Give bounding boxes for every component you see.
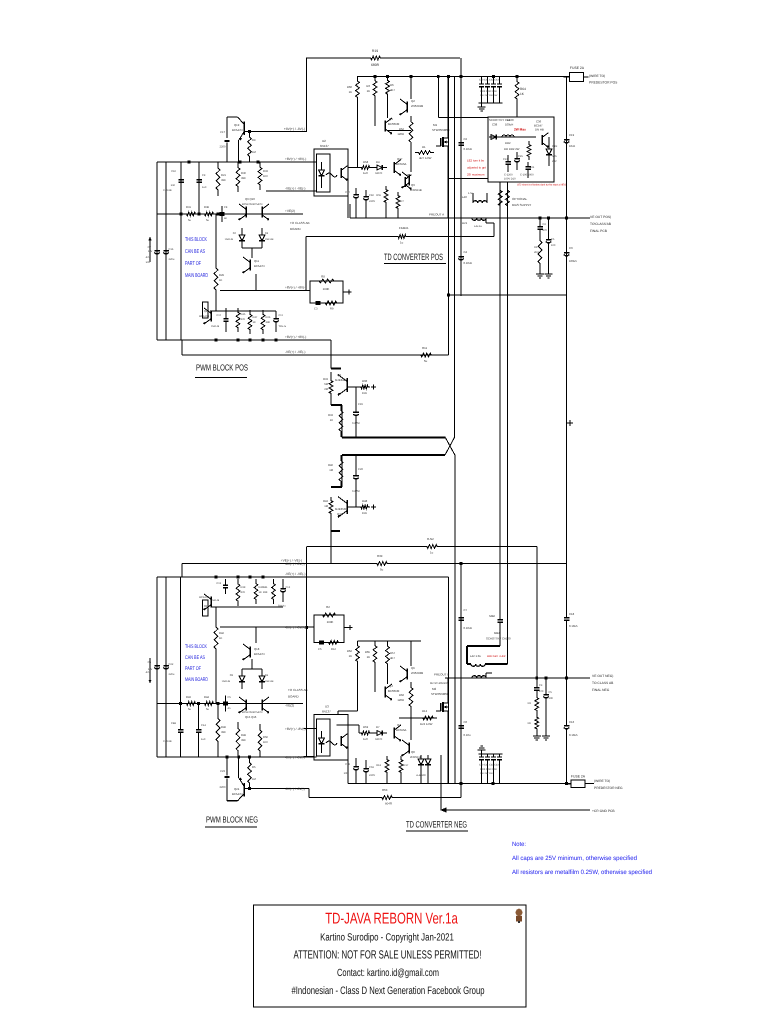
wire filba left [306, 236, 396, 238]
svg-text:C5: C5 [228, 696, 232, 699]
wire filba right [408, 223, 494, 237]
wire Q18 emitter up [255, 627, 257, 643]
svg-text:C-PENF: C-PENF [163, 189, 172, 192]
opto U2 internals [319, 162, 348, 188]
svg-text:1u: 1u [400, 241, 404, 245]
svg-text:C40 C41 C42 C43: C40 C41 C42 C43 [479, 79, 499, 82]
svg-text:6N137: 6N137 [322, 710, 331, 714]
node plus R36 [371, 384, 376, 389]
wire rail x448 lower [448, 577, 450, 784]
svg-text:28V: 28V [552, 160, 557, 163]
capacitor C19 on rail 566 [564, 128, 576, 154]
svg-text:BIAS SUPPLY: BIAS SUPPLY [512, 203, 531, 207]
svg-text:Q23: Q23 [204, 309, 210, 313]
resistor R11 mid [418, 346, 434, 363]
svg-text:680R: 680R [371, 63, 380, 67]
label U2 6N137 [320, 139, 329, 148]
svg-text:1u0: 1u0 [363, 171, 368, 175]
capacitor bank C30-C33 [479, 754, 503, 784]
svg-text:C30 C31 C32 C33: C30 C31 C32 C33 [479, 764, 499, 767]
resistor R45 pwm [236, 308, 246, 332]
svg-text:R6: R6 [390, 83, 394, 87]
wire emitter stub upper [331, 405, 342, 438]
svg-text:Q9 Q10: Q9 Q10 [245, 197, 255, 201]
svg-text:MJE350C: MJE350C [335, 507, 347, 511]
capacitor C16 rail [163, 240, 175, 264]
svg-text:SCHOTTKY CA160: SCHOTTKY CA160 [489, 118, 514, 122]
wire pwm neg mid rail [157, 702, 303, 705]
svg-text:PREOUT A: PREOUT A [429, 213, 444, 217]
svg-text:SCHOTTKY CA160: SCHOTTKY CA160 [486, 637, 511, 641]
resistor FILBA1 [396, 226, 409, 245]
transistor Q4 BC556A [394, 157, 407, 176]
inductor L1 [502, 135, 514, 137]
wire bottom POS section [447, 294, 566, 297]
svg-text:R33: R33 [323, 378, 328, 381]
icon author portrait [516, 909, 523, 924]
svg-text:5V6: 5V6 [552, 155, 557, 158]
svg-text:100V D10: 100V D10 [504, 178, 516, 181]
svg-text:-VE(2): -VE(2) [285, 704, 294, 708]
svg-text:BC556M: BC556M [388, 122, 400, 126]
resistor R55 [376, 186, 388, 206]
svg-text:C3: C3 [314, 308, 318, 311]
svg-text:C17: C17 [345, 191, 350, 194]
feedback box R10 C5 R12 [314, 605, 344, 651]
capacitor C7n rail neg [146, 655, 160, 679]
svg-text:All caps are 25V minimum, othe: All caps are 25V minimum, otherwise spec… [512, 855, 638, 862]
fuse F1 2A POS [564, 66, 585, 81]
resistor R30 pwm [236, 162, 246, 192]
wire box internal top [489, 136, 536, 138]
svg-text:604R: 604R [385, 802, 392, 806]
capacitor C13s [534, 678, 544, 694]
wire M1 source to preout [447, 146, 449, 218]
capacitor C37 [503, 155, 511, 172]
resistor RNEG mid [424, 537, 440, 555]
svg-text:R6: R6 [528, 722, 532, 725]
label PREOUT B [434, 673, 449, 677]
svg-text:1K: 1K [367, 655, 371, 659]
label Q9 Q10 [242, 197, 262, 206]
resistor bias supply A [498, 186, 502, 210]
resistor bias supply B [506, 186, 510, 210]
wire R64 to box [516, 104, 518, 117]
transistor Q18 BC547N [242, 644, 264, 660]
svg-text:R52: R52 [399, 127, 405, 131]
capacitor C17n pwm neg [220, 757, 230, 801]
label 2W Max red [514, 128, 526, 132]
svg-text:Q3: Q3 [411, 183, 415, 187]
label Q15 Q16 [242, 711, 262, 719]
svg-text:#Indonesian - Class D Next Gen: #Indonesian - Class D Next Generation Fa… [292, 985, 485, 997]
svg-text:0.10u5: 0.10u5 [569, 624, 578, 628]
svg-text:VE OUT POS): VE OUT POS) [590, 215, 611, 219]
label -8V bottom rail neg [285, 756, 305, 760]
svg-text:Q19: Q19 [337, 512, 343, 516]
wire emitter stub lower [331, 455, 342, 487]
wire opto out to chain [348, 167, 359, 169]
resistor R9 top [248, 132, 257, 163]
svg-text:Q19: Q19 [234, 123, 240, 127]
svg-text:4R7 1/2W: 4R7 1/2W [419, 156, 432, 160]
inductor L4C primary [462, 192, 487, 203]
inductor LR1n on out wire [472, 673, 492, 678]
svg-text:L42 1.0u: L42 1.0u [470, 654, 481, 658]
transistor Q5n 2N5403 [399, 666, 423, 682]
transistor Q6n BC556A [394, 723, 407, 741]
svg-text:39K: 39K [263, 591, 268, 594]
svg-text:C37: C37 [503, 158, 508, 161]
svg-text:VE OUT NEG): VE OUT NEG) [592, 674, 613, 678]
wire Q19 collector run [245, 130, 307, 133]
svg-text:220u: 220u [169, 673, 175, 676]
svg-text:R29: R29 [219, 274, 224, 277]
resistor R29 pwm [214, 262, 224, 296]
svg-text:R42: R42 [323, 500, 328, 503]
wire mid rail pwm pos [157, 213, 303, 216]
node +8V(+)/-8V(-) stub [284, 127, 305, 131]
feedback box R8 C3 R9 [310, 275, 343, 311]
wire vert x357 link [357, 102, 359, 168]
resistor R38 pwm [202, 206, 216, 222]
svg-text:C23: C23 [220, 770, 225, 773]
wire Q7n to R56n [410, 712, 412, 740]
capacitor C15s [543, 688, 553, 732]
svg-text:R17: R17 [404, 764, 409, 767]
svg-text:C11: C11 [279, 314, 284, 317]
svg-text:100: 100 [549, 697, 554, 700]
wire pwm pos left rail C [180, 162, 182, 340]
svg-text:R64: R64 [520, 87, 526, 91]
svg-text:100K: 100K [323, 287, 330, 291]
wire CR GND run [441, 808, 590, 812]
wire pwm pos rail C9 [198, 162, 200, 214]
svg-text:120R: 120R [397, 132, 404, 136]
wire bottom fuse run [460, 782, 571, 785]
svg-text:TO'CLASS'AB: TO'CLASS'AB [590, 222, 612, 226]
wire opto neg out mid [337, 725, 360, 733]
svg-text:Q18: Q18 [254, 647, 260, 651]
svg-text:1.5u: 1.5u [468, 192, 474, 195]
capacitor C30 rail566 low [564, 678, 578, 739]
wire top feedback run right [383, 57, 460, 59]
svg-text:100: 100 [344, 772, 349, 775]
capacitor C7 rail [146, 240, 160, 264]
label red below box [517, 184, 566, 187]
label +8V out [285, 286, 306, 290]
resistor R38n pwm neg [202, 696, 216, 711]
svg-text:C15: C15 [358, 403, 363, 406]
svg-text:C35: C35 [518, 155, 523, 158]
svg-text:R12: R12 [422, 709, 428, 713]
svg-text:C22: C22 [358, 468, 363, 471]
svg-text:PREOUT B: PREOUT B [434, 673, 449, 677]
svg-text:-VE(+) / -VE(-): -VE(+) / -VE(-) [285, 187, 305, 191]
svg-text:R39: R39 [377, 554, 383, 558]
svg-text:12v: 12v [148, 668, 153, 671]
wire diodes join neg [242, 659, 262, 669]
svg-text:R33: R33 [263, 170, 268, 173]
wire thick out lower [342, 454, 445, 456]
wire rail x454 upper [454, 77, 456, 438]
svg-text:5u: 5u [188, 219, 191, 222]
svg-text:TO CLASS AB: TO CLASS AB [288, 688, 307, 692]
svg-text:2N5551B: 2N5551B [410, 188, 422, 192]
resistor R47n pwm neg [254, 579, 264, 604]
svg-text:Q1: Q1 [389, 117, 393, 121]
svg-text:BOARD: BOARD [290, 227, 302, 231]
wire x441 down [440, 755, 442, 810]
svg-text:THIS BLOCK: THIS BLOCK [185, 237, 207, 243]
svg-text:DN HB: DN HB [535, 128, 544, 132]
svg-text:C9: C9 [202, 174, 206, 177]
svg-text:OPTIONAL: OPTIONAL [512, 197, 528, 201]
svg-text:BC547N BC547N: BC547N BC547N [242, 203, 262, 206]
svg-text:L1: L1 [507, 118, 511, 122]
svg-text:C10: C10 [171, 170, 176, 173]
svg-text:47K: 47K [241, 318, 246, 321]
label OPTIONAL BIAS SUPPLY [512, 197, 531, 207]
capacitor C17 conv [345, 188, 359, 204]
svg-text:25V 25V 25V 25V: 25V 25V 25V 25V [480, 94, 498, 97]
svg-text:(WIRE TO): (WIRE TO) [594, 779, 610, 783]
svg-text:+8V(+) / -8V(-): +8V(+) / -8V(-) [285, 727, 306, 731]
svg-text:R32: R32 [328, 414, 333, 417]
svg-text:BC547N BC547N: BC547N BC547N [242, 711, 262, 714]
resistor R58n [359, 725, 372, 741]
svg-text:39K: 39K [241, 739, 246, 742]
resistor R70s [528, 694, 539, 714]
wire rail x507 [507, 182, 509, 664]
ground output filter B [545, 247, 553, 278]
wire neg box path [467, 632, 508, 664]
resistor R26n pwm neg [263, 579, 276, 604]
resistor R21n pwm neg [216, 712, 226, 748]
capacitor C21 [525, 162, 535, 178]
svg-text:R57: R57 [390, 651, 396, 655]
wire preoutA left vert [349, 204, 351, 218]
svg-text:Q6: Q6 [411, 666, 415, 670]
diode D2 1N4148 [225, 228, 245, 248]
svg-text:0.10u: 0.10u [464, 733, 471, 737]
wire opto neg bottom run [348, 760, 460, 784]
svg-text:M2: M2 [432, 687, 436, 691]
svg-text:C4: C4 [464, 250, 468, 254]
svg-text:FUSE 2A: FUSE 2A [570, 66, 585, 70]
wire neg out step [309, 789, 379, 798]
svg-text:C-2200: C-2200 [504, 174, 513, 177]
wire +8V out stub [220, 290, 310, 292]
wire lower fb run right [390, 562, 567, 565]
svg-text:R13: R13 [376, 764, 381, 767]
wire step into Q8 [331, 340, 341, 369]
svg-text:1N4148: 1N4148 [265, 680, 274, 683]
svg-text:4K7: 4K7 [390, 88, 395, 92]
label MBR SCHOTTKY CA160 [486, 631, 511, 641]
svg-text:MB2: MB2 [489, 614, 495, 618]
svg-text:6N137: 6N137 [320, 144, 329, 148]
svg-text:C14: C14 [286, 586, 291, 589]
svg-text:Q4: Q4 [389, 684, 393, 688]
capacitor C16n rail neg [163, 655, 175, 679]
title contact [337, 968, 439, 979]
svg-text:R5: R5 [252, 766, 256, 769]
node plus right of R10 box [344, 625, 353, 630]
svg-text:TD CONVERTER NEG: TD CONVERTER NEG [406, 820, 467, 830]
svg-text:C-PENF: C-PENF [163, 740, 172, 743]
wire pwm neg left rail B [165, 577, 167, 757]
resistor R63 [527, 141, 531, 160]
wire rail x461 lower [460, 564, 462, 784]
svg-text:C17: C17 [220, 131, 225, 134]
svg-text:R65: R65 [365, 650, 371, 654]
svg-text:R43: R43 [186, 696, 191, 699]
svg-text:U3: U3 [325, 705, 329, 709]
wire rail x500 [499, 182, 501, 615]
svg-text:C8: C8 [224, 206, 228, 209]
capacitor C12 pwm [211, 311, 229, 332]
resistor R12n 1R2 [420, 709, 436, 726]
svg-text:+VE(2): +VE(2) [285, 209, 295, 213]
svg-text:15K: 15K [362, 511, 367, 515]
capacitor C9n pwm neg [196, 704, 207, 758]
transistor Q4n BC556M [385, 684, 400, 700]
label TD CONVERTER NEG [406, 820, 468, 832]
svg-text:PWM BLOCK POS: PWM BLOCK POS [196, 363, 248, 373]
resistor R31n pwm neg [184, 696, 198, 711]
wire Q19 emitter down [331, 517, 340, 564]
svg-text:25/ maximum: 25/ maximum [467, 173, 485, 177]
svg-text:PREDESTOR NEG: PREDESTOR NEG [594, 786, 623, 790]
svg-text:R46: R46 [221, 726, 226, 729]
transistor Q11 BC547N [242, 257, 264, 273]
wire pwm neg bottom rail [157, 756, 317, 759]
resistor R55n [376, 756, 389, 776]
capacitor C9 pwm [196, 170, 207, 192]
svg-text:STW45NM50: STW45NM50 [432, 128, 450, 132]
svg-text:R11: R11 [422, 346, 427, 350]
svg-text:MAIN BOARD: MAIN BOARD [185, 677, 208, 683]
svg-text:Q17: Q17 [204, 604, 210, 608]
svg-text:C59: C59 [369, 766, 374, 769]
ground output filter A [536, 270, 544, 278]
label cap values [504, 174, 534, 181]
wire pwm neg left rail C [180, 577, 182, 704]
svg-text:2R2: 2R2 [534, 251, 539, 254]
svg-text:Q11: Q11 [254, 259, 260, 263]
capacitor C28 rail461 neg [458, 607, 472, 630]
svg-text:1N4148: 1N4148 [211, 325, 220, 328]
label PWM BLOCK NEG [205, 815, 258, 827]
svg-text:5u: 5u [424, 359, 428, 363]
capacitor bank C40-C43 [479, 77, 503, 104]
label L1 100uH [505, 118, 513, 127]
svg-text:1u0: 1u0 [202, 186, 207, 189]
inductor L4n [470, 654, 485, 666]
svg-text:R40: R40 [328, 464, 333, 467]
wire Q19 emitter down [238, 140, 240, 162]
wire pwm neg -8V rail [182, 563, 331, 565]
svg-text:C3: C3 [569, 246, 573, 250]
svg-text:-VE(+) / -VE(-): -VE(+) / -VE(-) [285, 350, 305, 354]
svg-text:Q8: Q8 [411, 750, 415, 754]
svg-text:PART OF: PART OF [185, 261, 201, 267]
title block frame [254, 905, 527, 1007]
svg-text:CAN BE AS: CAN BE AS [185, 249, 205, 255]
transistor Q2 2N5401 [399, 99, 423, 115]
transistor Q7n 2N5551 [401, 740, 422, 759]
svg-text:1N4148: 1N4148 [211, 599, 220, 602]
svg-text:0.10u5: 0.10u5 [464, 626, 473, 630]
svg-text:39K: 39K [221, 731, 226, 734]
capacitor C11n pwm neg [278, 579, 291, 608]
svg-text:-8V(+) / -8V(-): -8V(+) / -8V(-) [285, 562, 305, 566]
resistor R53n [379, 788, 395, 806]
wire right rail from fuse [566, 77, 568, 297]
svg-text:C5: C5 [551, 238, 555, 241]
mosfet M1 STW45NM50 [432, 123, 450, 147]
svg-text:R49: R49 [241, 734, 246, 737]
svg-text:BC547N: BC547N [232, 792, 243, 796]
svg-text:R9: R9 [330, 308, 334, 311]
wire x536 down [536, 547, 538, 679]
wire vert x357 link neg [357, 666, 359, 711]
svg-text:R42: R42 [219, 632, 224, 635]
capacitor C35 [514, 152, 523, 170]
svg-text:C22: C22 [169, 663, 174, 666]
transistor Q5 conv [405, 173, 411, 189]
svg-text:0.27M: 0.27M [352, 422, 360, 425]
svg-text:5u: 5u [380, 568, 384, 572]
svg-text:2W Max: 2W Max [514, 128, 526, 132]
svg-text:-8V(+) / -8V(-): -8V(+) / -8V(-) [285, 787, 305, 791]
svg-text:1K: 1K [367, 89, 371, 93]
label -VE stub pwm [266, 187, 317, 192]
resistor R29n pwm neg [214, 621, 224, 655]
svg-text:L4u 1u: L4u 1u [474, 225, 482, 228]
label -VE2 mid rail neg [285, 704, 294, 708]
capacitor C25 on rail 566 lower [564, 241, 577, 267]
svg-text:1u0: 1u0 [201, 738, 206, 741]
resistor R33n pwm neg [258, 724, 268, 757]
resistor R62n [386, 641, 396, 669]
svg-text:TAN 4u: TAN 4u [279, 325, 287, 328]
wire Q8 base link [330, 372, 332, 405]
svg-text:Q24: Q24 [234, 787, 240, 791]
svg-text:0.10u5: 0.10u5 [569, 733, 578, 737]
svg-text:R38: R38 [204, 206, 209, 209]
svg-text:Q5: Q5 [407, 173, 411, 177]
svg-text:DR DR2 2W: DR DR2 2W [504, 147, 520, 151]
svg-text:BOARD: BOARD [288, 695, 300, 699]
opto U3 internals [319, 731, 348, 753]
wire vertical to +8V stub [306, 58, 308, 132]
svg-text:470: 470 [543, 229, 548, 232]
wire preout A [350, 217, 590, 220]
resistor R26 pwm [261, 310, 271, 334]
svg-text:C6: C6 [464, 720, 468, 724]
wire rail x454 lower [454, 455, 456, 784]
transistor Q19 MJE350C [335, 497, 347, 518]
svg-text:TD-JAVA REBORN Ver.1a: TD-JAVA REBORN Ver.1a [325, 911, 458, 928]
svg-text:C19: C19 [569, 133, 575, 137]
svg-text:C5: C5 [318, 648, 322, 651]
svg-text:+8V(+) / -8V(-): +8V(+) / -8V(-) [284, 127, 305, 131]
svg-text:ATTENTION: NOT FOR SALE UNLESS: ATTENTION: NOT FOR SALE UNLESS PERMITTED… [294, 948, 482, 962]
svg-text:R12: R12 [331, 648, 336, 651]
svg-text:LE2 short it of below dark tur: LE2 short it of below dark turf to start… [517, 184, 566, 187]
